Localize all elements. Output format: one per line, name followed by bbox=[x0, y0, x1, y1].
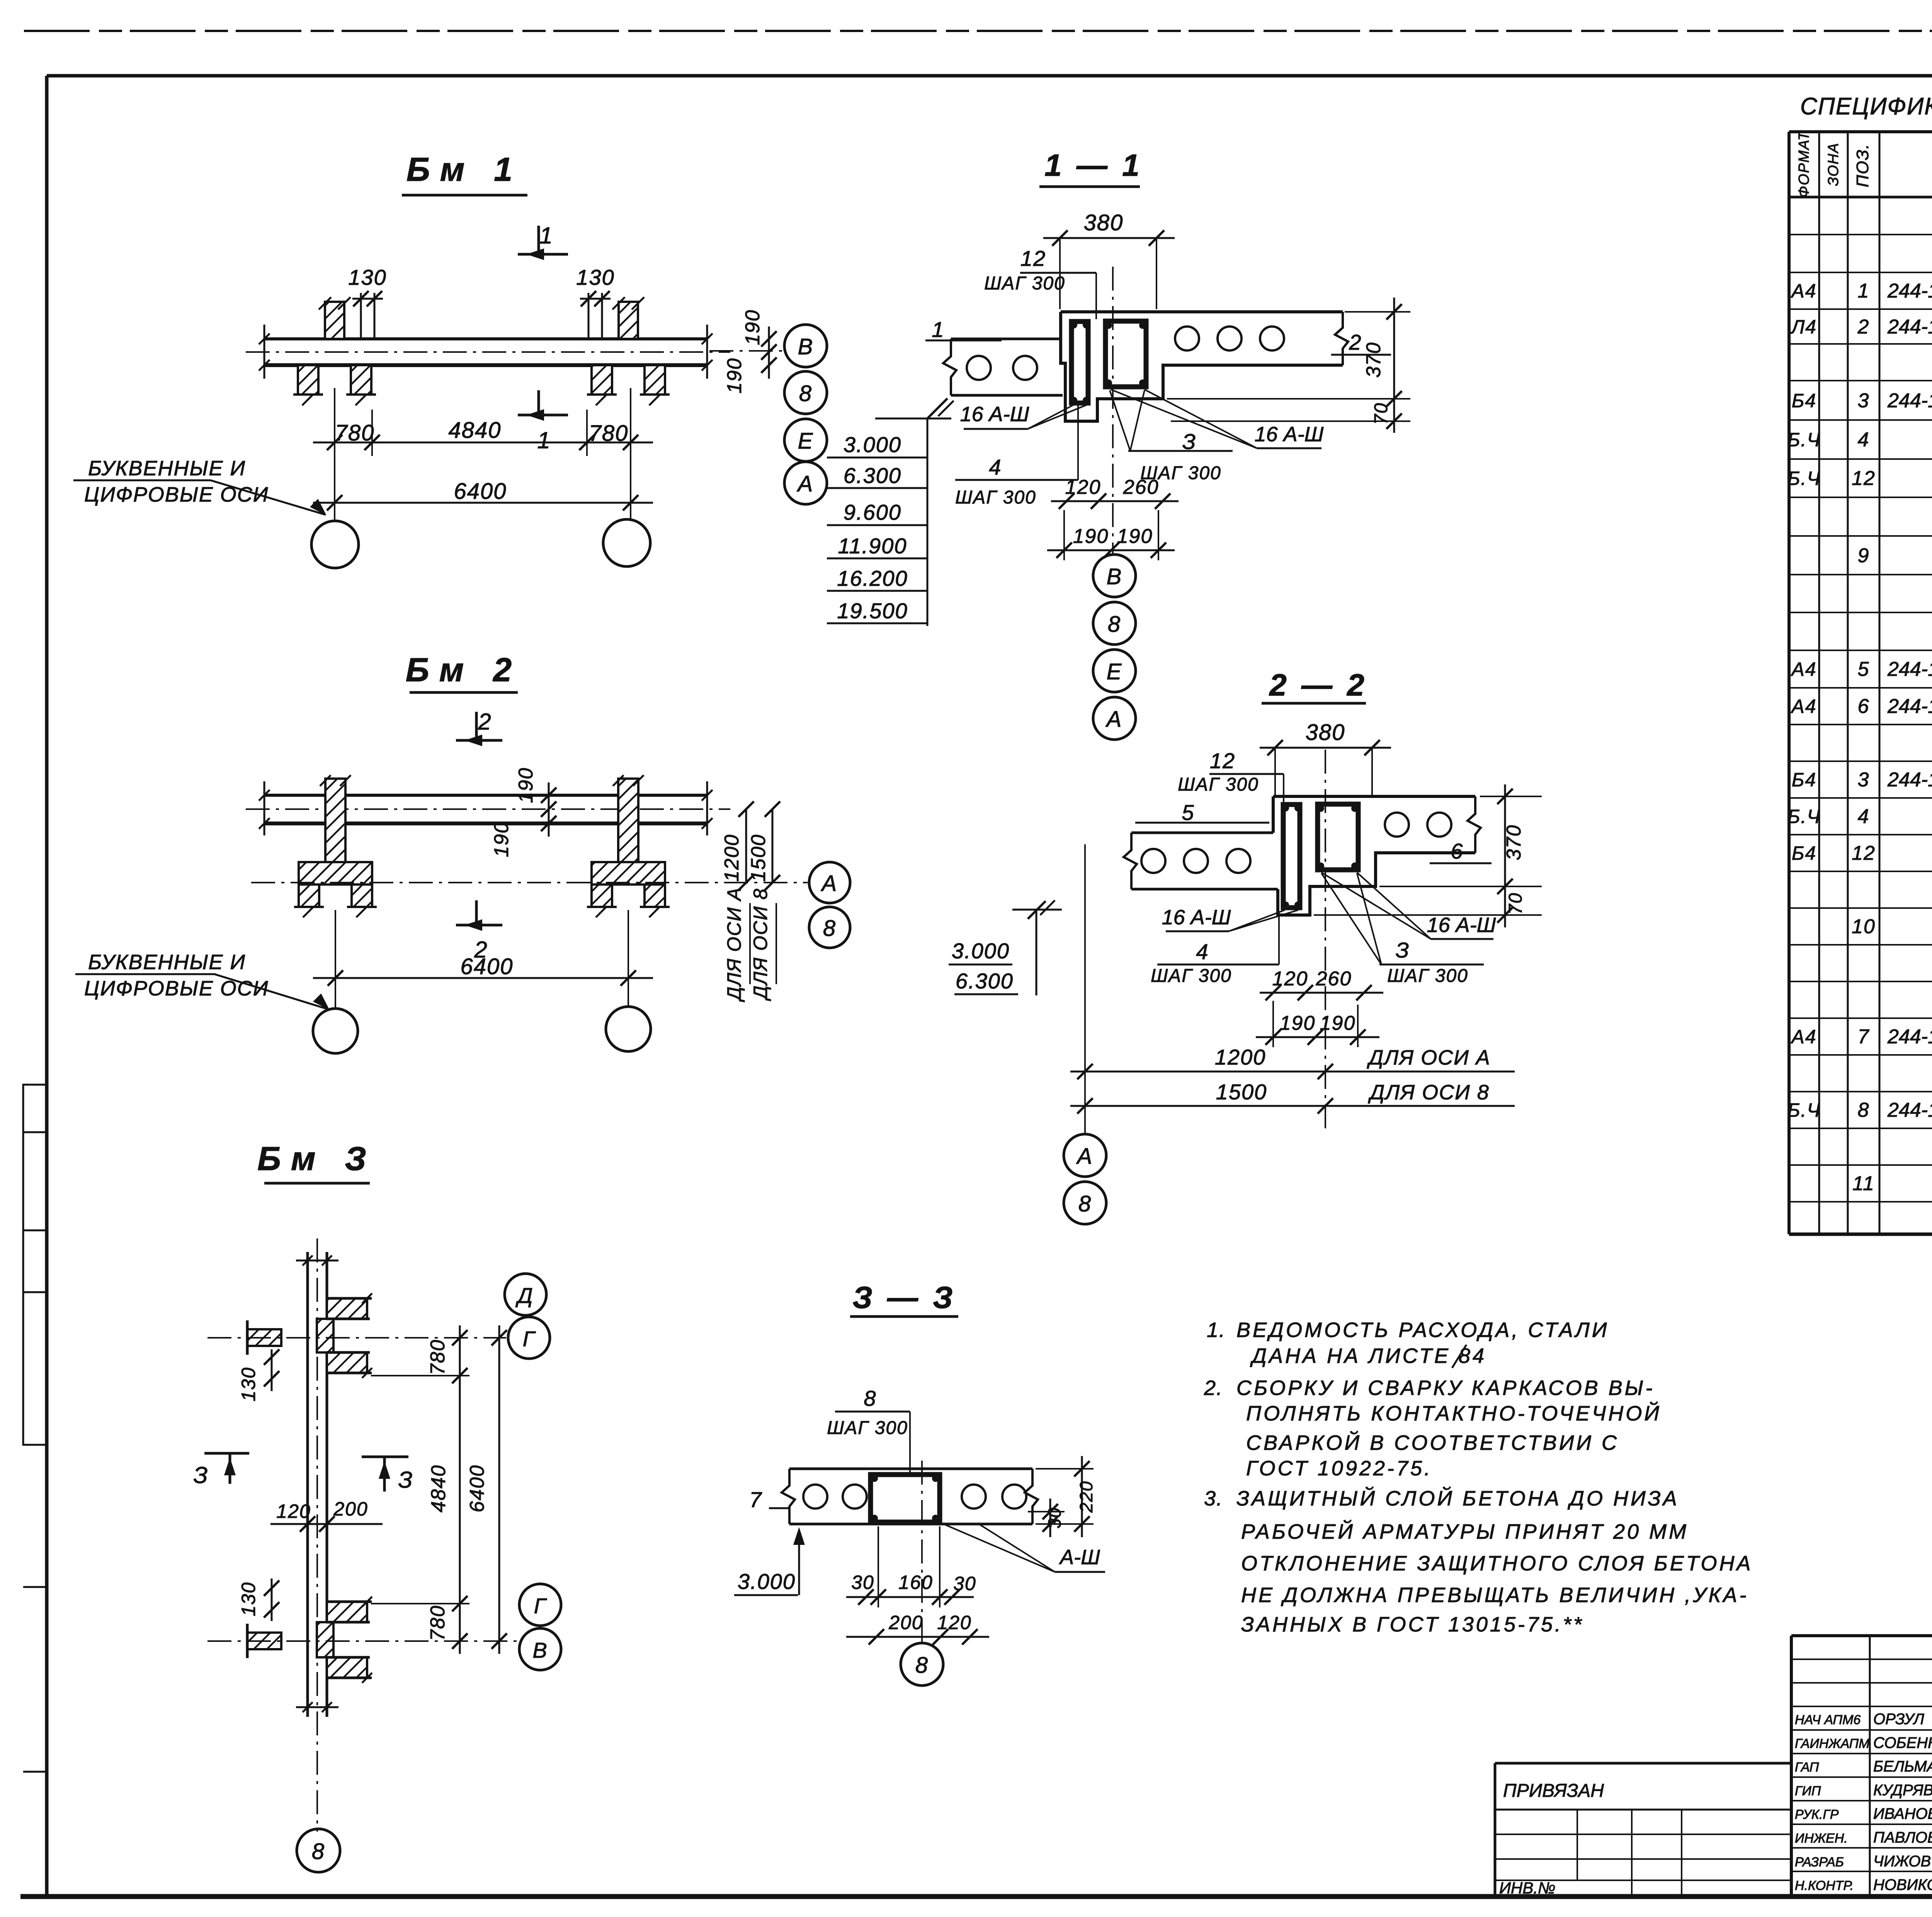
svg-text:БУКВЕННЫЕ И: БУКВЕННЫЕ И bbox=[88, 457, 246, 480]
dimension 130 bottom rotated bbox=[271, 1579, 273, 1621]
svg-text:ПРИВЯЗАН: ПРИВЯЗАН bbox=[1503, 1781, 1604, 1801]
svg-text:3.: 3. bbox=[1204, 1487, 1223, 1510]
axis circles В 8 Е А bbox=[784, 325, 827, 367]
svg-text:ДЛЯ ОСИ А: ДЛЯ ОСИ А bbox=[1367, 1046, 1491, 1069]
svg-text:ИВАНОВА: ИВАНОВА bbox=[1873, 1805, 1932, 1822]
hatched support legs below beam bbox=[592, 365, 612, 395]
svg-text:Д: Д bbox=[515, 1283, 533, 1308]
svg-text:8: 8 bbox=[864, 1386, 876, 1410]
svg-text:244-1-66.86-КЖИ-29 010: 244-1-66.86-КЖИ-29 010 bbox=[1887, 1026, 1932, 1048]
Т-column support bbox=[325, 779, 345, 862]
svg-text:ФОРМАТ: ФОРМАТ bbox=[1796, 131, 1812, 198]
beam Бм1 centerline bbox=[246, 351, 730, 353]
dimension 370 and 70 right bbox=[1345, 311, 1410, 313]
svg-text:ГОСТ 10922-75.: ГОСТ 10922-75. bbox=[1246, 1457, 1432, 1480]
svg-text:З: З bbox=[194, 1462, 209, 1488]
beam Бм1 bottom chord bbox=[264, 363, 707, 367]
svg-text:ШАГ 300: ШАГ 300 bbox=[1151, 966, 1232, 986]
svg-text:380: 380 bbox=[1306, 720, 1345, 745]
dimension 6400 bbox=[313, 977, 653, 979]
svg-text:1500: 1500 bbox=[747, 834, 770, 882]
svg-text:30: 30 bbox=[953, 1573, 976, 1594]
svg-text:З: З bbox=[398, 1467, 413, 1493]
svg-text:3: 3 bbox=[1858, 390, 1870, 412]
svg-text:16 А-Ш: 16 А-Ш bbox=[960, 403, 1029, 426]
left fold marks strip bbox=[23, 1085, 47, 1445]
svg-text:В: В bbox=[1107, 564, 1122, 589]
svg-text:1.: 1. bbox=[1207, 1318, 1226, 1342]
svg-text:ЗОНА: ЗОНА bbox=[1825, 143, 1842, 186]
beam end lines bbox=[264, 325, 265, 379]
svg-text:3: 3 bbox=[1858, 769, 1870, 791]
beam Бм2 bottom chord bbox=[264, 822, 707, 825]
svg-text:БУКВЕННЫЕ И: БУКВЕННЫЕ И bbox=[88, 951, 246, 974]
axis circle 8 (bottom) bbox=[297, 1829, 340, 1872]
svg-text:2: 2 bbox=[1857, 316, 1870, 338]
svg-text:Б4: Б4 bbox=[1792, 842, 1816, 864]
svg-text:244-1-66.86-АС-3-БМ2-01: 244-1-66.86-АС-3-БМ2-01 bbox=[1887, 769, 1932, 791]
hollow slab 3-3 bbox=[789, 1468, 1032, 1470]
svg-text:9.600: 9.600 bbox=[844, 500, 901, 524]
svg-text:В: В bbox=[532, 1638, 548, 1662]
svg-text:780: 780 bbox=[427, 1339, 449, 1375]
dimension 1500 для оси 8 bbox=[1070, 1105, 1515, 1107]
beam axis centerline bbox=[1112, 267, 1114, 555]
svg-text:ШАГ 300: ШАГ 300 bbox=[984, 273, 1065, 294]
beam axis centerline bbox=[1325, 750, 1326, 1128]
svg-text:ПОЗ.: ПОЗ. bbox=[1853, 143, 1872, 187]
wall edge lines 130 gap bbox=[360, 293, 362, 339]
svg-text:А4: А4 bbox=[1790, 1026, 1816, 1048]
svg-text:8: 8 bbox=[823, 916, 836, 941]
svg-text:8: 8 bbox=[799, 381, 812, 406]
svg-text:244-1-66.86-КЖИ-БМ1 -010: 244-1-66.86-КЖИ-БМ1 -010 bbox=[1887, 390, 1932, 412]
axis dash line Г bbox=[207, 1337, 506, 1339]
svg-text:19.500: 19.500 bbox=[837, 599, 908, 623]
svg-text:Г: Г bbox=[534, 1594, 547, 1618]
svg-text:120: 120 bbox=[1272, 968, 1308, 990]
svg-text:Бм 1: Бм 1 bbox=[406, 151, 522, 188]
svg-text:1200: 1200 bbox=[1215, 1045, 1266, 1069]
svg-text:А-Ш: А-Ш bbox=[1059, 1546, 1100, 1569]
svg-text:А4: А4 bbox=[1790, 280, 1816, 302]
beam Бм1 top chord bbox=[264, 337, 707, 340]
svg-text:130: 130 bbox=[238, 1367, 259, 1401]
svg-text:1: 1 bbox=[539, 223, 553, 248]
svg-text:Н.КОНТР.: Н.КОНТР. bbox=[1795, 1878, 1854, 1893]
svg-text:7: 7 bbox=[1858, 1026, 1870, 1048]
привязан table bbox=[1495, 1762, 1791, 1765]
svg-text:РУК.ГР: РУК.ГР bbox=[1795, 1807, 1839, 1822]
svg-text:4: 4 bbox=[1196, 939, 1209, 964]
dimension 30 160 30 bbox=[846, 1596, 974, 1598]
wall pier above beam bbox=[325, 302, 344, 339]
svg-text:10: 10 bbox=[1852, 915, 1876, 938]
svg-text:Г: Г bbox=[523, 1327, 536, 1351]
svg-text:ЧИЖОВ: ЧИЖОВ bbox=[1873, 1853, 1931, 1870]
svg-text:70: 70 bbox=[1371, 402, 1391, 424]
svg-text:ГАИНЖАПМ: ГАИНЖАПМ bbox=[1795, 1736, 1870, 1751]
dimension 190 190 bbox=[1256, 1036, 1379, 1038]
svg-text:2: 2 bbox=[1349, 330, 1362, 354]
axis circle 8 below bbox=[901, 1643, 943, 1686]
axis circle right bbox=[603, 519, 650, 566]
svg-text:6: 6 bbox=[1451, 839, 1463, 863]
section mark 2 (bottom) bbox=[475, 900, 478, 925]
svg-text:А: А bbox=[1105, 707, 1122, 732]
svg-text:160: 160 bbox=[898, 1572, 933, 1593]
left hollow slab 1-1 bbox=[951, 338, 1061, 340]
axis circles В 8 Е А below section 1-1 bbox=[1093, 555, 1136, 597]
main border frame bbox=[47, 74, 1932, 78]
axis circles А 8 bbox=[1064, 1134, 1106, 1177]
svg-text:200: 200 bbox=[888, 1612, 923, 1633]
svg-text:6: 6 bbox=[1858, 695, 1870, 718]
svg-text:4840: 4840 bbox=[448, 418, 501, 443]
svg-text:Б.Ч: Б.Ч bbox=[1787, 806, 1821, 827]
svg-text:2: 2 bbox=[478, 709, 492, 735]
svg-text:6.300: 6.300 bbox=[844, 463, 901, 488]
right hollow slab holes bbox=[1175, 327, 1199, 350]
svg-text:Е: Е bbox=[798, 429, 814, 454]
left wall stub bottom bbox=[247, 1633, 281, 1649]
svg-text:190: 190 bbox=[742, 310, 764, 345]
svg-text:ШАГ 300: ШАГ 300 bbox=[955, 487, 1036, 508]
beam Бм3 vertical chords bbox=[306, 1252, 309, 1717]
svg-text:380: 380 bbox=[1084, 210, 1124, 235]
svg-text:ШАГ 300: ШАГ 300 bbox=[827, 1418, 908, 1438]
svg-text:А: А bbox=[821, 871, 838, 896]
svg-text:НОВИКОВА: НОВИКОВА bbox=[1873, 1876, 1932, 1893]
svg-text:НАЧ АПМ6: НАЧ АПМ6 bbox=[1795, 1713, 1861, 1727]
svg-text:190: 190 bbox=[1320, 1012, 1356, 1034]
svg-text:4: 4 bbox=[989, 455, 1002, 479]
svg-text:11: 11 bbox=[1852, 1172, 1875, 1195]
svg-text:120: 120 bbox=[276, 1500, 311, 1522]
svg-text:16 А-Ш: 16 А-Ш bbox=[1427, 913, 1496, 937]
elevation levels list bbox=[927, 418, 929, 626]
svg-text:ОТКЛОНЕНИЕ ЗАЩИТНОГО СЛОЯ Б: ОТКЛОНЕНИЕ ЗАЩИТНОГО СЛОЯ БЕТОНА bbox=[1241, 1552, 1753, 1575]
top corbel hatched bbox=[327, 1298, 367, 1319]
svg-text:8: 8 bbox=[1108, 612, 1121, 637]
beam Бм3 centerline bbox=[316, 1238, 318, 1832]
dimension row 780 4840 780 bbox=[313, 442, 653, 444]
svg-text:3.000: 3.000 bbox=[844, 432, 901, 457]
svg-text:Б.Ч: Б.Ч bbox=[1787, 429, 1821, 451]
svg-text:ОРЗУЛ: ОРЗУЛ bbox=[1873, 1711, 1924, 1728]
svg-text:КУДРЯВЦЕВА: КУДРЯВЦЕВА bbox=[1873, 1782, 1932, 1799]
svg-text:ПОЛНЯТЬ КОНТАКТНО-ТОЧЕЧНОЙ: ПОЛНЯТЬ КОНТАКТНО-ТОЧЕЧНОЙ bbox=[1246, 1402, 1662, 1425]
svg-text:12: 12 bbox=[1852, 467, 1876, 490]
svg-text:1: 1 bbox=[932, 317, 944, 342]
svg-text:4: 4 bbox=[1858, 429, 1870, 451]
dimension 6400 bbox=[313, 502, 653, 504]
svg-text:190: 190 bbox=[1117, 525, 1153, 548]
dimension 190 190 at right beam end bbox=[768, 327, 770, 379]
svg-text:НЕ ДОЛЖНА ПРЕВЫЩАТЬ ВЕЛИЧИН: НЕ ДОЛЖНА ПРЕВЫЩАТЬ ВЕЛИЧИН ,УКА- bbox=[1241, 1584, 1748, 1607]
svg-text:ИНВ.№: ИНВ.№ bbox=[1499, 1879, 1556, 1897]
dashed top page edge line bbox=[24, 30, 1932, 32]
dimension 130 top rotated bbox=[271, 1349, 273, 1391]
svg-text:ЗАННЫХ В ГОСТ 13015-75.**: ЗАННЫХ В ГОСТ 13015-75.** bbox=[1241, 1613, 1584, 1636]
hatched support legs below beam bbox=[298, 365, 318, 395]
svg-text:780: 780 bbox=[589, 421, 629, 446]
svg-text:4: 4 bbox=[1858, 805, 1870, 828]
svg-text:70: 70 bbox=[1505, 892, 1526, 914]
svg-text:Б4: Б4 bbox=[1792, 769, 1816, 791]
beam end lines bbox=[264, 781, 265, 835]
svg-text:5: 5 bbox=[1858, 658, 1870, 680]
svg-text:120: 120 bbox=[1065, 476, 1101, 498]
svg-text:370: 370 bbox=[1362, 342, 1385, 378]
svg-text:8: 8 bbox=[1078, 1191, 1092, 1216]
svg-text:2.: 2. bbox=[1204, 1376, 1223, 1400]
section mark 3 (right) bbox=[362, 1456, 408, 1458]
dimension 6400 rotated bbox=[498, 1325, 500, 1654]
svg-text:16.200: 16.200 bbox=[837, 566, 908, 590]
svg-text:11.900: 11.900 bbox=[838, 534, 907, 558]
dimension 370 and 70 right bbox=[1480, 796, 1542, 797]
svg-text:190: 190 bbox=[1073, 525, 1109, 548]
svg-text:БЕЛЬМАН: БЕЛЬМАН bbox=[1873, 1758, 1932, 1775]
dimension 380 bbox=[1260, 747, 1391, 749]
svg-text:СПЕЦИФИКАЦИЯ ЭЛЕМЕНТОВ БАЛОК: СПЕЦИФИКАЦИЯ ЭЛЕМЕНТОВ БАЛОК МОНОЛИТНЫХ … bbox=[1800, 93, 1932, 120]
svg-text:3.000: 3.000 bbox=[952, 939, 1010, 963]
dimension 380 bbox=[1043, 237, 1175, 239]
svg-text:200: 200 bbox=[333, 1498, 368, 1520]
axis dash line В bbox=[207, 1640, 518, 1642]
stirrup frame (pos 8) bbox=[871, 1475, 940, 1522]
svg-text:ДАНА НА ЛИСТЕ 84: ДАНА НА ЛИСТЕ 84 bbox=[1250, 1344, 1486, 1368]
dimension 190 190 bbox=[548, 782, 550, 837]
svg-text:8: 8 bbox=[1858, 1099, 1870, 1121]
svg-text:260: 260 bbox=[1123, 476, 1159, 498]
svg-text:244-1-66.86-КЖИ- 26.010: 244-1-66.86-КЖИ- 26.010 bbox=[1887, 316, 1932, 338]
svg-text:СБОРКУ И СВАРКУ КАРКАСОВ В: СБОРКУ И СВАРКУ КАРКАСОВ ВЫ- bbox=[1236, 1376, 1655, 1400]
left wall stub top bbox=[247, 1329, 281, 1346]
section mark 1 (bottom) bbox=[537, 390, 540, 415]
svg-text:Е: Е bbox=[1107, 659, 1122, 684]
svg-text:ЦИФРОВЫЕ ОСИ: ЦИФРОВЫЕ ОСИ bbox=[84, 977, 269, 1000]
svg-text:З — З: З — З bbox=[852, 1280, 956, 1315]
svg-text:6400: 6400 bbox=[466, 1465, 488, 1512]
dimension 120 200 bbox=[270, 1523, 383, 1525]
svg-text:12: 12 bbox=[1020, 246, 1046, 270]
svg-text:30: 30 bbox=[851, 1572, 874, 1593]
svg-text:244-1-6686-КЖИ-25.010: 244-1-6686-КЖИ-25.010 bbox=[1887, 280, 1932, 302]
beam end lines bbox=[296, 1260, 338, 1262]
svg-text:Б.Ч: Б.Ч bbox=[1787, 1099, 1821, 1121]
svg-text:1: 1 bbox=[1858, 280, 1870, 302]
dimension 130 bbox=[352, 298, 383, 300]
left hollow slab 2-2 bbox=[1131, 832, 1273, 834]
svg-text:780: 780 bbox=[335, 420, 375, 446]
dimension 200 120 bbox=[846, 1636, 989, 1638]
svg-text:120: 120 bbox=[937, 1612, 971, 1633]
section mark 3 (left) bbox=[204, 1452, 249, 1455]
svg-text:190: 190 bbox=[723, 358, 746, 394]
svg-text:6400: 6400 bbox=[460, 954, 513, 979]
svg-text:А: А bbox=[1076, 1144, 1093, 1169]
wall edge lines 130 gap bbox=[601, 293, 603, 339]
svg-text:12: 12 bbox=[1210, 748, 1235, 773]
svg-text:ЦИФРОВЫЕ ОСИ: ЦИФРОВЫЕ ОСИ bbox=[84, 483, 269, 506]
wall pier above beam bbox=[619, 302, 638, 339]
svg-text:ШАГ 300: ШАГ 300 bbox=[1178, 774, 1259, 795]
section mark 2 (top) bbox=[475, 712, 478, 740]
svg-text:16 А-Ш: 16 А-Ш bbox=[1162, 906, 1231, 929]
signature table columns bbox=[1869, 1636, 1871, 1897]
dimension 130 bbox=[580, 298, 611, 300]
svg-text:190: 190 bbox=[1280, 1012, 1316, 1034]
dimension 120 260 bbox=[1051, 500, 1179, 502]
svg-text:ЗАЩИТНЫЙ СЛОЙ БЕТОНА ДО НИ: ЗАЩИТНЫЙ СЛОЙ БЕТОНА ДО НИЗА bbox=[1236, 1487, 1679, 1510]
svg-text:130: 130 bbox=[576, 265, 614, 289]
dimension 780 4840 780 rotated bbox=[459, 1325, 461, 1654]
svg-text:РАБОЧЕЙ АРМАТУРЫ ПРИНЯТ 20: РАБОЧЕЙ АРМАТУРЫ ПРИНЯТ 20 ММ bbox=[1241, 1520, 1689, 1543]
svg-text:8: 8 bbox=[915, 1653, 929, 1678]
axis circle right bbox=[606, 1007, 651, 1051]
svg-text:А: А bbox=[797, 471, 814, 497]
svg-text:ГАП: ГАП bbox=[1795, 1760, 1819, 1775]
dimension 1200 1500 rotated bbox=[745, 809, 747, 883]
svg-text:СВАРКОЙ В СООТВЕТСТВИИ С: СВАРКОЙ В СООТВЕТСТВИИ С bbox=[1246, 1431, 1619, 1454]
svg-text:ГИП: ГИП bbox=[1795, 1784, 1821, 1798]
svg-text:ДЛЯ ОСИ 8: ДЛЯ ОСИ 8 bbox=[750, 888, 771, 1001]
svg-text:1500: 1500 bbox=[1216, 1080, 1267, 1104]
svg-text:4840: 4840 bbox=[427, 1465, 450, 1512]
svg-text:244-1-6686-КЖИ-27.010: 244-1-6686-КЖИ-27.010 bbox=[1887, 658, 1932, 680]
stirrup frame left (pos 4) bbox=[1071, 321, 1088, 403]
svg-text:2 — 2: 2 — 2 bbox=[1269, 668, 1367, 702]
svg-text:220: 220 bbox=[1076, 1481, 1096, 1513]
svg-text:8: 8 bbox=[312, 1839, 325, 1864]
beam 2-2 outline bbox=[1273, 796, 1475, 915]
Т-column support bbox=[618, 779, 638, 862]
svg-text:6400: 6400 bbox=[454, 479, 507, 504]
dimension 30 220 right bbox=[1028, 1511, 1065, 1512]
table grid bbox=[1787, 132, 1791, 1234]
svg-text:244-1-66.86-КЖИ-28.010: 244-1-66.86-КЖИ-28.010 bbox=[1887, 695, 1932, 718]
title block outline bbox=[1791, 1634, 1932, 1637]
svg-text:370: 370 bbox=[1503, 825, 1525, 861]
section mark 1 (top) bbox=[537, 226, 540, 254]
dimension 190 190 bbox=[1047, 549, 1175, 551]
svg-text:Б.Ч: Б.Ч bbox=[1787, 468, 1821, 489]
svg-text:З: З bbox=[1396, 938, 1410, 962]
svg-text:3.000: 3.000 bbox=[738, 1569, 796, 1594]
svg-text:9: 9 bbox=[1858, 544, 1870, 567]
stirrup frame left (pos 4) bbox=[1283, 805, 1300, 908]
svg-text:190: 190 bbox=[515, 767, 537, 803]
axis circles Г В (bottom) bbox=[519, 1584, 561, 1626]
svg-text:7: 7 bbox=[749, 1487, 762, 1512]
svg-text:ДЛЯ ОСИ А: ДЛЯ ОСИ А bbox=[723, 887, 745, 1002]
beam axis centerline bbox=[921, 1461, 923, 1643]
svg-text:260: 260 bbox=[1316, 968, 1352, 990]
svg-text:В: В bbox=[798, 334, 814, 359]
svg-text:130: 130 bbox=[238, 1582, 259, 1616]
svg-text:Л4: Л4 bbox=[1790, 316, 1817, 338]
svg-text:А4: А4 bbox=[1790, 658, 1816, 680]
svg-text:1 — 1: 1 — 1 bbox=[1044, 148, 1142, 182]
svg-text:Б4: Б4 bbox=[1792, 390, 1816, 412]
svg-text:ДЛЯ ОСИ 8: ДЛЯ ОСИ 8 bbox=[1368, 1081, 1490, 1104]
svg-text:30: 30 bbox=[1044, 1507, 1065, 1528]
stirrup frame right (pos 3) bbox=[1318, 804, 1358, 870]
axis circles А 8 right bbox=[809, 862, 850, 903]
bottom corbel hatched bbox=[327, 1602, 367, 1622]
svg-text:130: 130 bbox=[348, 265, 386, 289]
svg-text:ПАВЛОВА: ПАВЛОВА bbox=[1873, 1829, 1932, 1846]
svg-text:6.300: 6.300 bbox=[956, 969, 1014, 993]
svg-text:16 А-Ш: 16 А-Ш bbox=[1255, 423, 1324, 446]
svg-text:Бм З: Бм З bbox=[257, 1140, 376, 1177]
svg-text:Бм 2: Бм 2 bbox=[406, 651, 522, 689]
signature table rows bbox=[1791, 1658, 1932, 1660]
svg-text:А4: А4 bbox=[1790, 696, 1816, 717]
svg-text:РАЗРАБ: РАЗРАБ bbox=[1795, 1855, 1844, 1869]
axis circle left bbox=[311, 521, 359, 568]
svg-text:780: 780 bbox=[427, 1605, 449, 1641]
svg-text:1200: 1200 bbox=[721, 834, 743, 882]
axis circles Д Г (top) bbox=[505, 1274, 546, 1315]
svg-text:СОБЕННИКОВ: СОБЕННИКОВ bbox=[1873, 1734, 1932, 1751]
svg-text:5: 5 bbox=[1182, 800, 1194, 825]
beam Бм2 top chord bbox=[264, 794, 707, 797]
svg-text:12: 12 bbox=[1852, 842, 1876, 864]
axis circle left bbox=[313, 1009, 358, 1053]
beam Бм2 centerline bbox=[246, 808, 730, 810]
dimension 1200 для оси А bbox=[1070, 1071, 1515, 1073]
svg-text:ИНЖЕН.: ИНЖЕН. bbox=[1795, 1831, 1848, 1846]
svg-text:ВЕДОМОСТЬ РАСХОДА, СТАЛИ: ВЕДОМОСТЬ РАСХОДА, СТАЛИ bbox=[1236, 1318, 1609, 1342]
right hollow slab 2-2 bbox=[1385, 813, 1409, 837]
dimension 120 260 bbox=[1260, 992, 1383, 994]
axis extension line bbox=[1084, 844, 1086, 1133]
svg-text:ШАГ 300: ШАГ 300 bbox=[1387, 966, 1468, 986]
axis extension lines bbox=[334, 388, 335, 521]
stirrup frame right (pos 3) bbox=[1105, 321, 1146, 387]
svg-text:1: 1 bbox=[537, 427, 551, 453]
beam 1-1 outline bbox=[1061, 312, 1343, 421]
svg-text:244-1-66.86-АС-3-БМЗ-01: 244-1-66.86-АС-3-БМЗ-01 bbox=[1887, 1099, 1932, 1121]
svg-text:190: 190 bbox=[490, 822, 513, 857]
horizontal axis dash line bbox=[251, 882, 808, 883]
